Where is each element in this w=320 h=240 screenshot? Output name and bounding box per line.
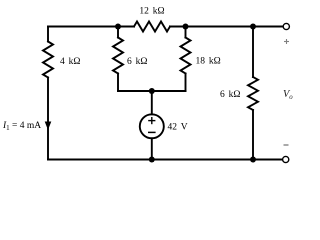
node junction dot top right bbox=[250, 24, 256, 30]
wire branch 6k upper bbox=[117, 27, 119, 38]
minus sign inside source bbox=[148, 131, 156, 133]
svg-text:18 kΩ: 18 kΩ bbox=[196, 57, 221, 67]
svg-text:6 kΩ: 6 kΩ bbox=[127, 57, 147, 67]
wire top-left segment bbox=[48, 26, 134, 28]
wire source stem lower bbox=[151, 138, 153, 159]
wire bottom bbox=[48, 159, 282, 161]
resistor R 18k zigzag bbox=[181, 38, 191, 74]
resistor R 6k right zigzag bbox=[248, 77, 258, 110]
wire source stem upper bbox=[151, 91, 153, 114]
node junction dot top 6k bbox=[115, 24, 121, 30]
terminal bottom-right open circle bbox=[283, 156, 289, 162]
wire branch 6k lower bbox=[117, 74, 119, 92]
wire box bottom bbox=[118, 90, 186, 92]
polarity plus top right bbox=[284, 39, 289, 44]
node junction dot top 18k bbox=[183, 24, 189, 30]
node junction dot box bottom bbox=[149, 88, 155, 94]
wire top-right segment bbox=[170, 26, 283, 28]
resistor R 4k zigzag bbox=[43, 42, 53, 78]
resistor R 12k zigzag bbox=[134, 22, 170, 32]
svg-text:42 V: 42 V bbox=[168, 123, 188, 133]
wire left vertical lower bbox=[47, 78, 49, 160]
node junction dot bottom source bbox=[149, 157, 155, 163]
wire branch 18k lower bbox=[185, 74, 187, 92]
svg-text:4 kΩ: 4 kΩ bbox=[60, 57, 80, 67]
terminal top-right open circle bbox=[283, 23, 289, 29]
resistor R 6k middle zigzag bbox=[113, 38, 123, 74]
wire branch 18k upper bbox=[185, 27, 187, 38]
voltage source V 42V circle bbox=[140, 114, 164, 138]
node junction dot bottom right bbox=[250, 157, 256, 163]
svg-text:12 kΩ: 12 kΩ bbox=[139, 7, 164, 17]
current arrow I1 bbox=[45, 122, 52, 131]
wire left vertical upper bbox=[47, 27, 49, 42]
wire right vertical upper bbox=[252, 27, 254, 78]
svg-text:6 kΩ: 6 kΩ bbox=[220, 90, 240, 100]
wire right vertical lower bbox=[252, 110, 254, 160]
polarity minus bottom right bbox=[284, 144, 289, 146]
plus sign inside source bbox=[148, 117, 155, 124]
